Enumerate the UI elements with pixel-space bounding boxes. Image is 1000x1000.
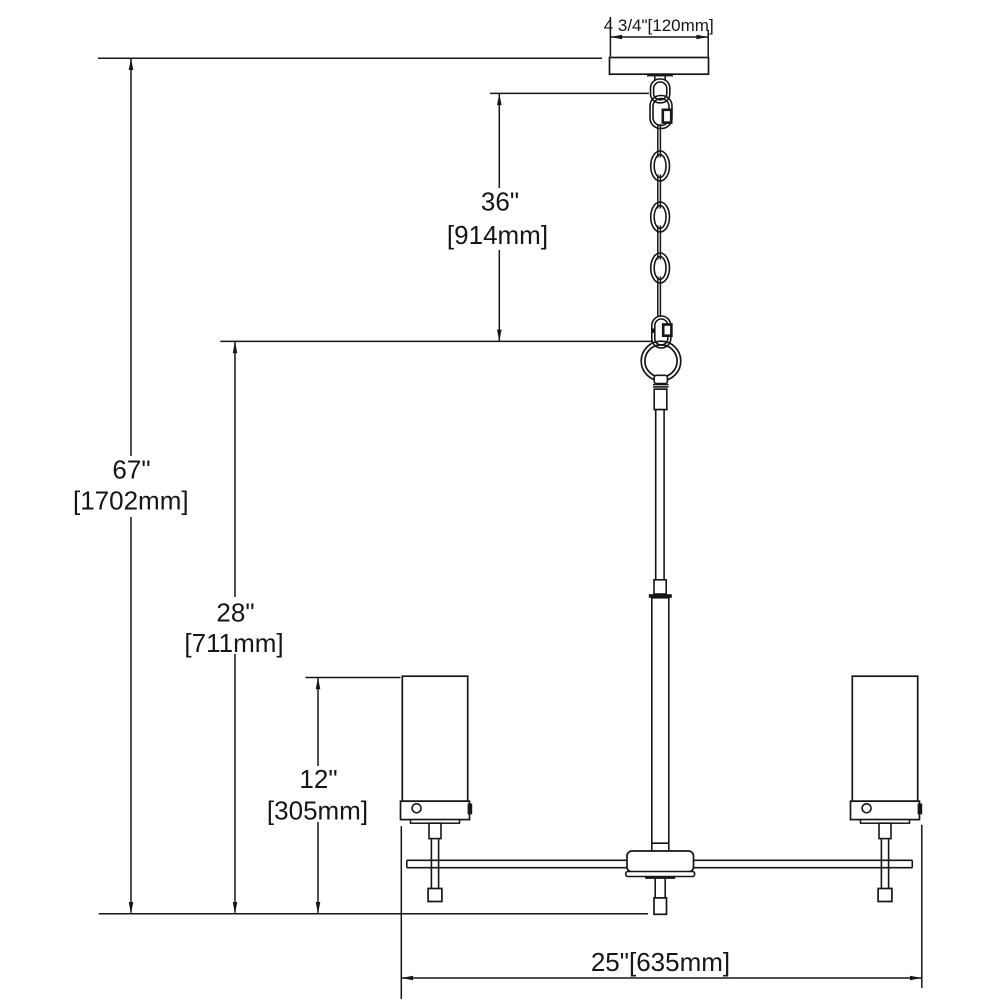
dimension line 36in [498, 93, 500, 188]
extension line: canopy right for 4 3/4in [707, 30, 709, 57]
left lamp upper stem [429, 823, 441, 838]
left lamp screw [412, 804, 421, 813]
svg-text:25"[635mm]: 25"[635mm] [591, 947, 730, 977]
svg-text:4 3/4"[120mm]: 4 3/4"[120mm] [604, 16, 714, 35]
narrow stem rod [656, 410, 664, 580]
center finial cube [654, 898, 667, 914]
hub black strip [645, 876, 675, 879]
dimension line 25in [401, 977, 922, 979]
quick link nut at ring [663, 325, 671, 336]
quick link gate tick [651, 329, 654, 334]
left lamp glass shade [402, 676, 467, 801]
canopy nipple (black) [647, 73, 673, 76]
svg-text:12": 12" [299, 764, 337, 794]
svg-text:67": 67" [112, 454, 150, 484]
right lamp thumbscrew nub [918, 804, 923, 815]
dimension line 4 3/4in [610, 36, 708, 38]
stem joint line [652, 842, 669, 844]
canopy [610, 58, 709, 75]
collar ridge lines [653, 384, 669, 386]
extension line: right edge for 25in width [921, 825, 923, 988]
svg-text:[914mm]: [914mm] [447, 220, 548, 250]
extension line: canopy left for 4 3/4in [609, 17, 611, 57]
right lamp socket band [851, 801, 920, 819]
stem flange (dark) [649, 594, 672, 598]
left lamp thumbscrew nub [468, 804, 473, 815]
collar below canopy [654, 76, 656, 80]
svg-text:[711mm]: [711mm] [184, 628, 283, 658]
svg-text:[1702mm]: [1702mm] [73, 486, 189, 516]
left lamp rod [430, 839, 432, 889]
svg-text:36": 36" [481, 187, 519, 217]
quick link nut at canopy [663, 110, 671, 123]
extension line: bottom of fixture [99, 913, 648, 915]
extension line: ceiling level (top of canopy) [98, 57, 602, 59]
extension line: left edge for 25in width [400, 826, 402, 999]
quick link at ring [652, 316, 671, 348]
top loop link [651, 79, 670, 103]
svg-text:28": 28" [216, 598, 254, 628]
left lamp bottom plate [411, 820, 460, 824]
hanging ring [641, 341, 681, 381]
quick link at canopy [650, 96, 672, 129]
chain oval link 2 [651, 202, 670, 232]
lower stem tube [652, 598, 669, 852]
chain oval link 1 [651, 151, 670, 181]
chain oval link 3 [651, 253, 670, 283]
chain wire [657, 124, 659, 317]
center hub [627, 851, 694, 872]
dimension line 12in [317, 678, 319, 767]
right lamp bottom plate [861, 820, 910, 824]
right lamp rod [880, 839, 882, 889]
svg-text:[305mm]: [305mm] [267, 796, 368, 826]
dimension line 67in [130, 58, 132, 456]
upper stem tube [654, 389, 667, 409]
right lamp screw [862, 804, 871, 813]
right lamp upper stem [879, 823, 891, 838]
stem coupler [654, 580, 666, 594]
right lamp end cube [878, 889, 892, 902]
extension line: bottom of chain / top of stem ring [220, 340, 653, 342]
left lamp end cube [428, 889, 442, 902]
right lamp glass shade [852, 676, 917, 801]
hub lip [626, 872, 695, 877]
extension line: top of glass shade [306, 677, 401, 679]
left lamp socket band [401, 801, 470, 819]
ring collar [654, 375, 667, 383]
dimension line 28in [234, 341, 236, 597]
center finial rod [654, 879, 656, 898]
arm bar [407, 860, 913, 867]
extension line: top of chain [490, 92, 649, 94]
